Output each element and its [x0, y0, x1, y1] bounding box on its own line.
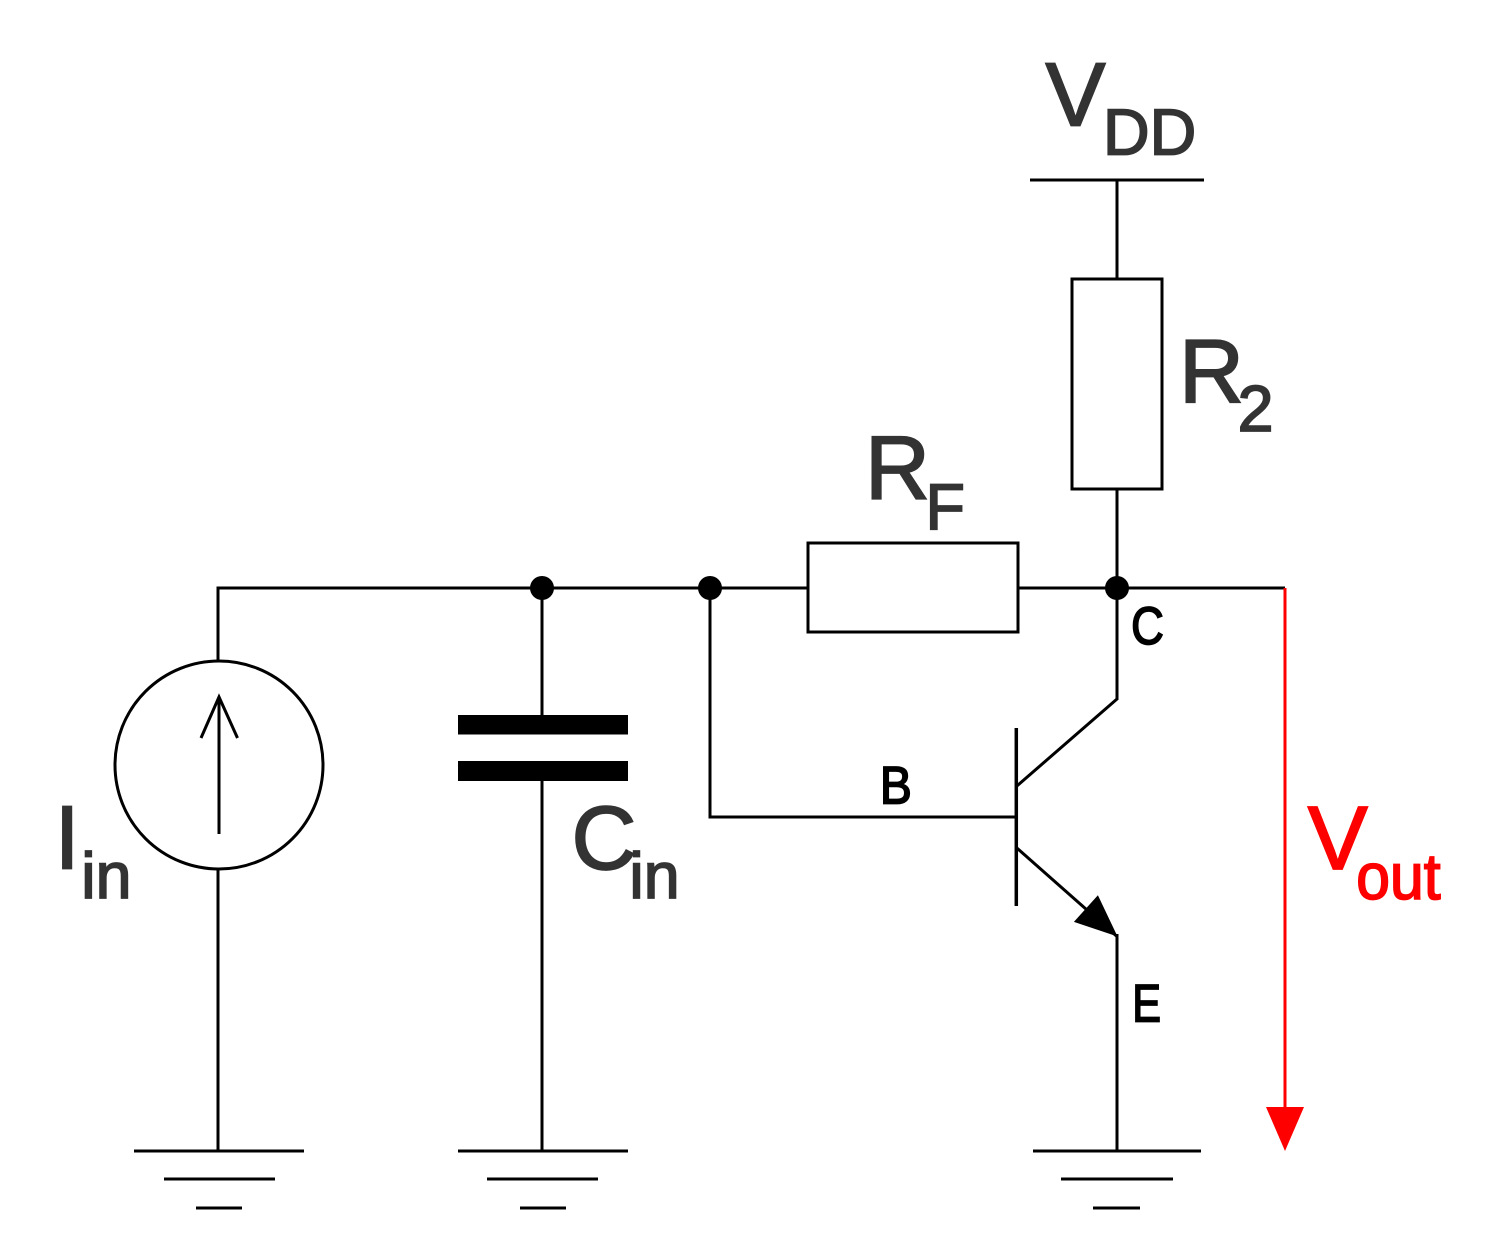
svg-text:V: V — [1046, 45, 1106, 145]
transistor Q1 emitter lead — [1016, 848, 1117, 937]
svg-text:C: C — [572, 789, 637, 889]
wire from node row down to capacitor top plate — [541, 588, 544, 717]
current source Iin circle — [115, 661, 323, 869]
svg-text:F: F — [926, 471, 965, 543]
ground under current source — [134, 1151, 304, 1208]
wire from node row down to current source top — [217, 587, 220, 664]
transistor Q1 base bar — [1015, 728, 1019, 906]
transistor Q1 collector lead — [1016, 699, 1117, 787]
node dot collector junction — [1105, 576, 1129, 600]
ground under emitter — [1033, 1151, 1201, 1208]
current source arrow — [201, 697, 238, 834]
label Iin — [55, 789, 132, 912]
svg-text:DD: DD — [1103, 97, 1196, 169]
wire VDD rail to resistor R2 — [1116, 180, 1119, 282]
label VDD — [1046, 45, 1197, 168]
svg-text:in: in — [629, 840, 679, 912]
svg-text:2: 2 — [1238, 373, 1274, 445]
svg-text:out: out — [1356, 841, 1440, 913]
wire from current source bottom to ground — [217, 868, 220, 1151]
label RF — [865, 418, 965, 543]
wire from node row down to transistor base — [710, 588, 1016, 817]
Vout arrowhead (red) — [1266, 1107, 1304, 1151]
capacitor Cin top plate — [458, 715, 628, 735]
power rail VDD bar — [1030, 179, 1204, 182]
transistor Q1 emitter arrowhead — [1074, 895, 1118, 936]
capacitor Cin bottom plate — [458, 761, 628, 781]
wire transistor emitter to ground — [1116, 934, 1119, 1151]
wire resistor R2 to collector node — [1116, 487, 1119, 588]
wire Vout sense line (red) — [1284, 588, 1287, 1112]
node dot base junction — [698, 576, 722, 600]
label Cin — [572, 789, 680, 912]
ground under capacitor — [458, 1151, 628, 1208]
resistor RF body — [808, 543, 1018, 632]
wire main horizontal net (input node row) — [218, 587, 1285, 590]
node dot input/capacitor junction — [530, 576, 554, 600]
svg-text:in: in — [81, 840, 131, 912]
label R2 — [1179, 322, 1273, 445]
svg-text:E: E — [1132, 974, 1161, 1033]
svg-text:R: R — [1179, 322, 1244, 422]
svg-text:C: C — [1131, 597, 1164, 656]
wire collector node down to transistor collector — [1116, 588, 1119, 700]
label Vout — [1308, 789, 1441, 913]
svg-text:R: R — [865, 418, 930, 518]
svg-text:B: B — [880, 755, 912, 815]
svg-text:I: I — [55, 789, 80, 889]
resistor R2 body — [1072, 279, 1162, 489]
wire from capacitor bottom plate to ground — [541, 779, 544, 1151]
